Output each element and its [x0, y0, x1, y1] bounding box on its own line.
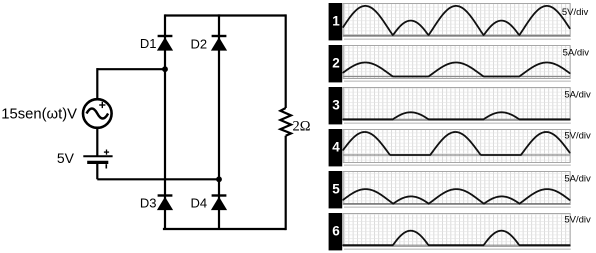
- svg-text:4: 4: [332, 140, 340, 155]
- svg-text:5: 5: [332, 182, 340, 197]
- scope strip 1: [329, 3, 589, 40]
- svg-text:5A/div: 5A/div: [564, 173, 591, 184]
- svg-text:5V/div: 5V/div: [564, 215, 591, 226]
- svg-text:D2: D2: [191, 37, 208, 52]
- wire middle bridge column: [218, 14, 220, 229]
- scope strip 6: [329, 213, 591, 250]
- svg-text:15sen(ωt)V: 15sen(ωt)V: [1, 107, 77, 123]
- diode D3: [157, 196, 173, 211]
- diode D1: [157, 36, 173, 51]
- svg-text:6: 6: [332, 224, 340, 239]
- wire source top horizontal: [97, 68, 165, 70]
- scope strip 5: [329, 171, 591, 208]
- svg-text:3: 3: [332, 98, 340, 113]
- node junction dot left: [162, 66, 168, 72]
- svg-text:5V: 5V: [57, 150, 75, 166]
- svg-text:1: 1: [332, 14, 340, 29]
- wire source to battery: [96, 128, 98, 156]
- scope strip 3: [329, 87, 591, 124]
- svg-text:D4: D4: [191, 196, 208, 211]
- wire top rail: [165, 14, 286, 16]
- svg-text:D3: D3: [140, 196, 157, 211]
- battery 5V: [83, 150, 112, 169]
- wire right load column bottom: [285, 136, 287, 230]
- svg-text:D1: D1: [140, 36, 157, 51]
- node junction dot right: [216, 176, 222, 182]
- diode D2: [211, 36, 227, 51]
- scope strip 4: [329, 129, 591, 166]
- wire battery bottom horizontal: [97, 178, 219, 180]
- wire left bridge column: [164, 14, 166, 229]
- wire bottom rail: [163, 228, 286, 230]
- svg-text:5A/div: 5A/div: [563, 48, 590, 59]
- svg-text:5V/div: 5V/div: [562, 7, 589, 18]
- resistor 2ohm: [280, 108, 291, 136]
- wire right load column top: [285, 14, 287, 108]
- svg-text:5A/div: 5A/div: [564, 89, 591, 100]
- scope strip 2: [329, 45, 590, 82]
- svg-text:2Ω: 2Ω: [293, 119, 311, 135]
- wire source top vertical: [96, 68, 98, 99]
- svg-text:5V/div: 5V/div: [564, 130, 591, 141]
- diode D4: [211, 196, 227, 211]
- svg-text:2: 2: [332, 56, 340, 71]
- AC source: [83, 99, 112, 128]
- wire battery bottom vertical: [96, 164, 98, 180]
